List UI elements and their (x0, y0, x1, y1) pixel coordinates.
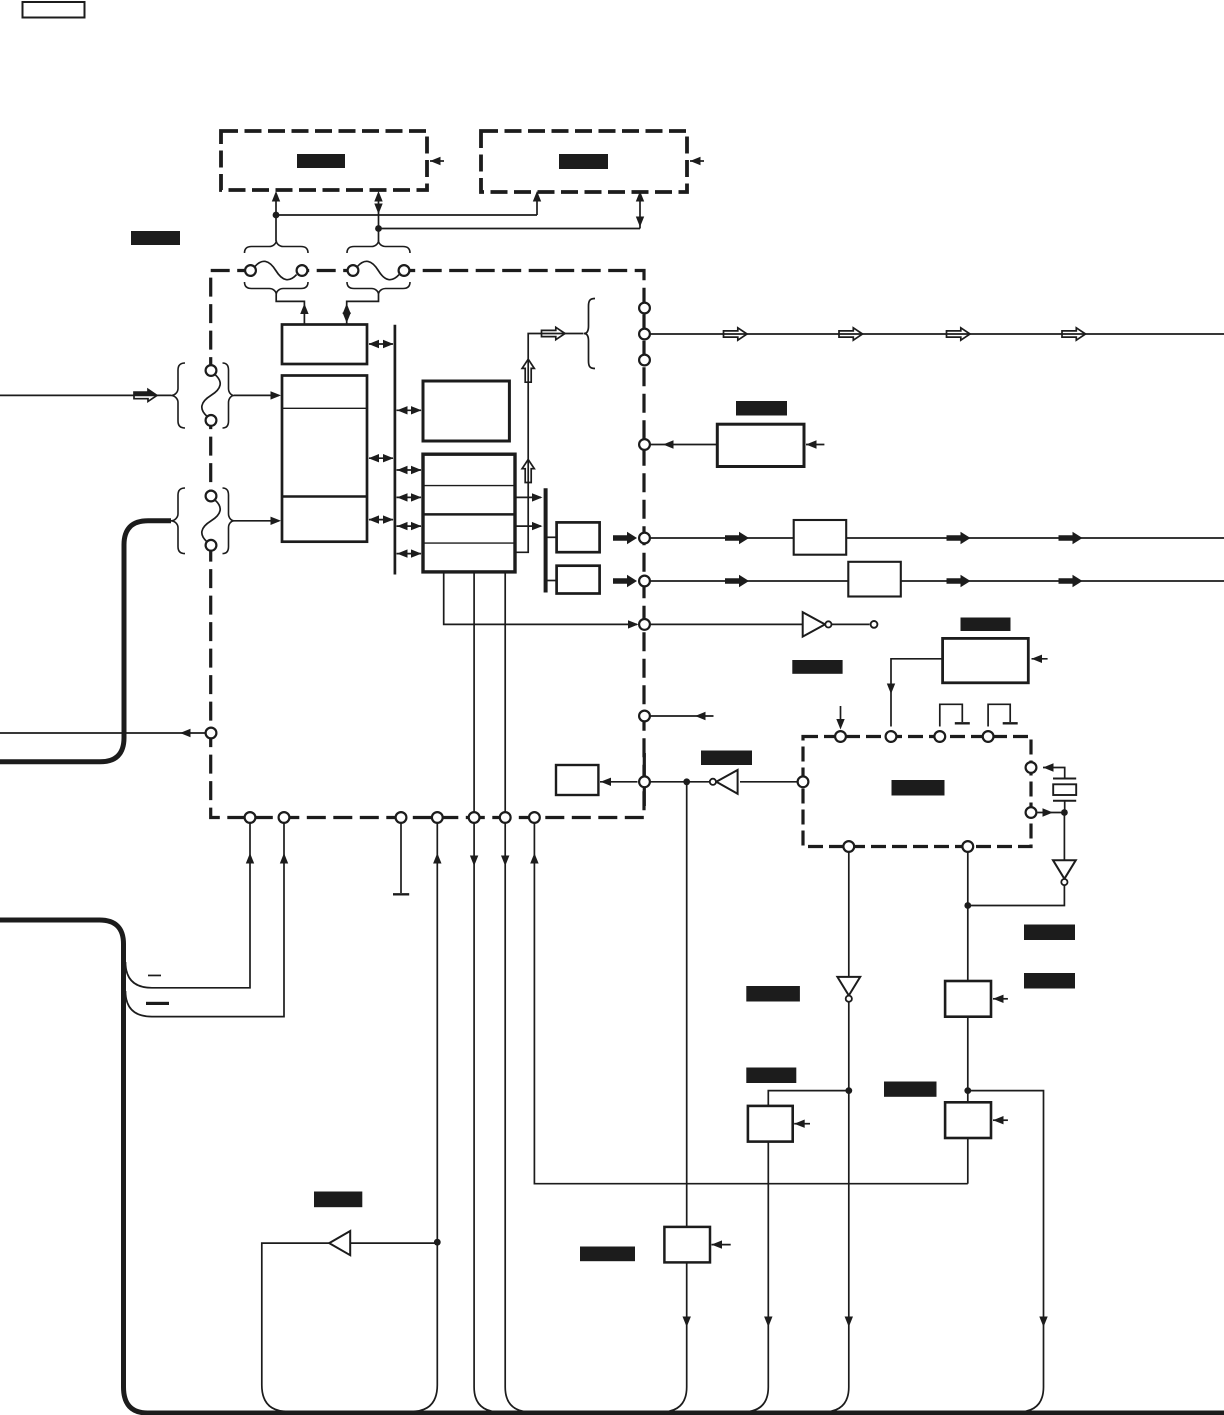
dashed block SUB CPU (top block 1) (221, 131, 427, 190)
label bar above loop buffer (314, 1192, 362, 1208)
pulse tap 2 on K (988, 704, 1010, 726)
label bar left of box P (884, 1082, 937, 1097)
left brace of connector pair L2 (171, 488, 185, 554)
label bar left of box M (580, 1247, 635, 1262)
input stub arrow at pin 716 (651, 715, 714, 717)
IC D divider 3 (424, 542, 514, 544)
edge mask pair2 (353, 265, 404, 276)
wire pin 437 down to tape loop (436, 824, 438, 1243)
wave link pair 1 (255, 261, 297, 279)
wire to harness (x=1043.5) (1018, 1320, 1044, 1412)
wire pin437 line to harness (merge left) (411, 1242, 437, 1411)
solid edge dash through pin 782 (643, 753, 646, 806)
connector pin 2 at (302,270.5) (297, 265, 308, 276)
connector pin 16 at (534.4,817.5) (529, 812, 540, 823)
tick mark bold (146, 1002, 169, 1005)
box G (sensor in) (717, 424, 804, 466)
IC D divider 1 (424, 485, 514, 487)
crystal bottom wire (1064, 801, 1066, 813)
fan-out brace to 3 pins (584, 299, 595, 369)
label bar above box N (746, 1068, 796, 1084)
internal data bus (vertical) (394, 325, 397, 575)
page number box (top-left) (23, 2, 85, 18)
connector pin 19 at (644.5,360) (639, 355, 650, 366)
open up arrow on riser (upper) (522, 359, 534, 382)
junction clock rail / buffer (964, 902, 971, 909)
label bar right 2 (1024, 973, 1075, 989)
input arrow into block 2 right edge (690, 160, 704, 162)
fat arrow 3 on y581 (947, 575, 971, 588)
thick cable B (to bottom harness) (0, 920, 1224, 1413)
box L (clock out) (556, 765, 598, 795)
thick cable A into L2 brace (0, 521, 171, 762)
open up arrow on riser (lower) (522, 460, 534, 483)
stub arrow into box J right edge (1032, 658, 1048, 660)
loop buffer (left-pointing) (329, 1231, 350, 1255)
chain inverter (down-pointing) (837, 977, 860, 996)
bidirectional stub block1 bottom x=378.5 (378, 196, 380, 241)
clock rail from K bottom pin (967, 852, 969, 1102)
wire box M to harness (661, 1262, 687, 1412)
link bar to driver E (546, 536, 557, 538)
wave link left pair L1 (202, 375, 220, 417)
wire inverter to junction (848, 1002, 850, 1091)
driver distribution bar (544, 488, 548, 592)
bidir arrow IC-D s2 to bus (397, 496, 422, 498)
connector pin 5 at (211,370.5) (206, 365, 217, 376)
connector pin 10 at (250,817.5) (245, 812, 256, 823)
stub arrow into box P right edge (993, 1119, 1008, 1121)
line pin624 to open-collector inverter (651, 623, 803, 625)
output line y=581 (651, 580, 1224, 582)
open arrow 3 on output line (947, 328, 971, 340)
open test point circle y624 (871, 621, 878, 628)
relay box H on y538 (794, 520, 847, 555)
connector pin 7 at (211,496) (206, 491, 217, 502)
connector pin 3 at (353,270.5) (348, 265, 359, 276)
bus wire line1 y=215 (276, 214, 537, 216)
wire K bottom pin to inverter chain (848, 852, 850, 977)
wire junction to loop buffer (350, 1242, 437, 1244)
crystal top wire (1043, 768, 1065, 778)
wire pair2 underbrace to IC-A top (bidir) (347, 295, 379, 325)
wire pin 534 to clock cross rail (534, 824, 967, 1184)
clock block K pin 5 at (803,781.8) (798, 776, 809, 787)
clock block K pin 3 at (939.8,736.5) (934, 731, 945, 742)
crystal body (1053, 784, 1076, 795)
wire buffer to clock rail (968, 885, 1065, 905)
wire K left pin to inverter (740, 781, 798, 783)
wire pin 474 to harness (down arrow) (474, 824, 500, 1413)
output line from left edge pin y=733 (0, 732, 205, 734)
right brace of connector pair L1 (223, 363, 235, 428)
output line y=538 (651, 537, 1224, 539)
termination stub at pin 401 (400, 824, 402, 894)
bidir arrow IC-A to bus (369, 343, 393, 345)
branch left to box N (768, 1091, 849, 1106)
box O (divider) on clock rail (945, 981, 991, 1017)
drive line F to pin 581 (613, 575, 637, 588)
connector pin 9 at (211,733) (206, 728, 217, 739)
wire chain to harness (x=848.8) (823, 1091, 849, 1412)
label bar inside block K (892, 780, 945, 796)
input stub arrow to K pin 840 (840, 706, 842, 721)
branch right to output rail (968, 1091, 1044, 1320)
wave link left pair L2 (202, 500, 220, 542)
connector pin 15 at (505.2,817.5) (500, 812, 511, 823)
edge mask pair L1 (206, 371, 217, 421)
relay box I on y581 (848, 562, 901, 597)
connector pin 24 at (644.5,716) (639, 711, 650, 722)
clock block K pin 4 at (988.1,736.5) (983, 731, 994, 742)
wire pin782 into box L (600, 781, 638, 783)
bidir arrow IC-D s4 to bus (397, 553, 422, 555)
wire box N to harness (742, 1142, 768, 1412)
inverter (right-pointing) on y624 (803, 612, 825, 636)
clock block K pin 1 at (840.5,736.5) (835, 731, 846, 742)
wire harness to pin 284 (up arrow) (126, 824, 285, 1017)
box P on clock rail (945, 1102, 991, 1138)
label bar left of connector area (131, 231, 180, 245)
driver F box (557, 566, 600, 594)
open arrow 1 on output line (724, 328, 748, 340)
label bar below inverter y624 (792, 660, 842, 674)
bidir arrow IC-D s3 to bus (397, 525, 422, 527)
IC D (interface box) (423, 454, 515, 572)
connector pin 13 at (437.3,817.5) (432, 812, 443, 823)
connector pin 12 at (401,817.5) (396, 812, 407, 823)
clock block K pin 6 at (1031,767.5) (1026, 762, 1037, 773)
wire inverter to test point (832, 623, 870, 625)
label bar above feedback inverter (701, 751, 752, 766)
connector pin 14 at (474.1,817.5) (469, 812, 480, 823)
arrow IC-D s2 to driver bar (515, 496, 541, 498)
connector pin 11 at (284,817.5) (279, 812, 290, 823)
bidir arrow IC-C to bus (397, 409, 422, 411)
clock block K pin 9 at (967.8,846.5) (962, 841, 973, 852)
crystal top plate (1053, 778, 1076, 780)
wire feedback junction down to box M (686, 785, 688, 1227)
wire harness to pin 250 (up arrow) (126, 824, 251, 988)
IC C (memory box) (423, 381, 509, 441)
feedback inverter bubble (710, 779, 716, 785)
right brace of connector pair L2 (223, 488, 235, 554)
open arrow 4 on output line (1062, 328, 1086, 340)
stub arrow into box O right edge (993, 998, 1008, 1000)
dashed block MAIN CPU (top block 2) (481, 131, 687, 192)
junction on feedback wire (683, 778, 690, 785)
label bar left of chain inverter (746, 986, 800, 1002)
main dashed block (system control board) (211, 271, 644, 818)
wire IC-D to bottom pin 6 (504, 572, 506, 812)
wire crystal node to buffer (1063, 813, 1065, 861)
box M (664, 1227, 710, 1263)
wire pin 506 to harness (down arrow) (505, 824, 531, 1413)
wire IC-D pin to inverter line (444, 572, 637, 624)
clock block K pin 8 at (848.8,846.5) (843, 841, 854, 852)
wire line1 up into block2 bottom (536, 196, 538, 215)
junction clock rail lower (964, 1087, 971, 1094)
wire block1 to connector pair 1 (x=276) (275, 196, 277, 241)
IC B (left tall box) (282, 376, 367, 542)
signal riser from IC-D to fan-out brace (515, 334, 583, 553)
junction below chain inverter (845, 1087, 852, 1094)
input line into left brace L1 (0, 394, 171, 396)
stub arrow into box N right edge (794, 1123, 810, 1125)
line pin444 to box G (651, 444, 718, 446)
feedback inverter (left-pointing) (716, 770, 737, 794)
box J (reset IC) (943, 638, 1029, 682)
fat arrow 4 on y538 (1059, 532, 1083, 545)
connector pin 21 at (644.5,538) (639, 533, 650, 544)
bidir arrow IC-B low to bus (369, 519, 393, 521)
link bar to driver F (546, 580, 557, 582)
connector pin 17 at (644.5,308) (639, 303, 650, 314)
connector pin 22 at (644.5,581) (639, 576, 650, 587)
connector pin 25 at (644.5,781.8) (639, 776, 650, 787)
edge mask pair1 (251, 265, 303, 276)
chain inverter bubble (846, 996, 852, 1002)
wire K pin 812 to crystal node (1038, 812, 1065, 814)
connector pin 18 at (644.5,334) (639, 329, 650, 340)
wire pair1 underbrace to IC-A top (276, 295, 304, 325)
label bar above box J (961, 618, 1011, 632)
arrow from L2 brace into IC-B (234, 520, 279, 522)
IC B divider 2 (282, 495, 367, 498)
arrow IC-D s3 to driver bar (515, 525, 541, 527)
driver E box (557, 522, 600, 552)
junction at crystal node (1061, 809, 1068, 816)
open right arrow on riser top (542, 327, 566, 339)
crystal bottom plate (1053, 800, 1076, 802)
inverter bubble y624 (825, 621, 831, 627)
label bar above box G (736, 401, 787, 416)
arrow from L1 brace into IC-B (234, 394, 279, 396)
left brace of connector pair L1 (171, 363, 185, 428)
bidir arrow IC-B mid to bus (369, 457, 393, 459)
label bar inside block 1 (297, 154, 345, 168)
tick mark small (148, 975, 161, 977)
connector pin 1 at (250.5,270.5) (245, 265, 256, 276)
underbrace below connector pair 1 (245, 282, 309, 295)
fat arrow 4 on y581 (1059, 575, 1083, 588)
wire IC-D to bottom pin 5 (473, 572, 475, 812)
bidir arrow IC-D s1 to bus (397, 469, 422, 471)
label bar inside block 2 (559, 154, 608, 169)
clock buffer bubble (1061, 879, 1067, 885)
connector pin 20 at (644.5,444.5) (639, 439, 650, 450)
wire inverter to main block pin 782 (651, 781, 710, 783)
wire box J to clock pin (891, 659, 943, 727)
pulse tap 1 on K (940, 704, 963, 726)
IC A (top small box) (282, 325, 367, 365)
clock block K pin 2 at (891,736.5) (886, 731, 897, 742)
bus wire line2 y=228.5 (379, 228, 641, 230)
overbrace above connector pair 1 (245, 241, 309, 254)
connector pin 4 at (404,270.5) (399, 265, 410, 276)
stub arrow into box M right edge (712, 1244, 731, 1246)
drive line E to pin 538 (613, 532, 637, 545)
label bar right 1 (1024, 925, 1075, 941)
clock buffer (down-pointing) (1053, 860, 1076, 879)
dashed clock block K (803, 737, 1031, 847)
fat arrow 2 on y581 (725, 575, 749, 588)
connector pin 8 at (211,545.3) (206, 540, 217, 551)
wire loop buffer to harness (262, 1243, 329, 1411)
underbrace below connector pair 2 (347, 282, 410, 295)
junction on line1 at x=276 (273, 212, 280, 219)
wave link pair 2 (358, 261, 400, 279)
edge mask pair L2 (206, 496, 217, 546)
bidirectional wire line2 to block2 bottom (639, 196, 641, 229)
wire box P to cross rail (967, 1138, 969, 1184)
open arrow 2 on output line (839, 328, 863, 340)
fat arrow 3 on y538 (947, 532, 971, 545)
IC D divider 2 (423, 513, 515, 516)
output line (3-pin group) to right (651, 333, 1224, 335)
junction at tape loop (434, 1239, 441, 1246)
IC B divider 1 (283, 407, 366, 409)
input arrow into block 1 right edge (430, 160, 444, 162)
clock block K pin 7 at (1031,812.5) (1026, 807, 1037, 818)
fat arrow 2 on y538 (725, 532, 749, 545)
connector pin 23 at (644.5,624.4) (639, 619, 650, 630)
connector pin 6 at (211,420.4) (206, 415, 217, 426)
box N (748, 1106, 793, 1142)
junction on line2 at x=378.5 (375, 225, 382, 232)
stub arrow into box G right edge (806, 444, 824, 446)
overbrace above connector pair 2 (347, 241, 410, 254)
open arrow on L1 input line (half filled) (134, 389, 157, 401)
